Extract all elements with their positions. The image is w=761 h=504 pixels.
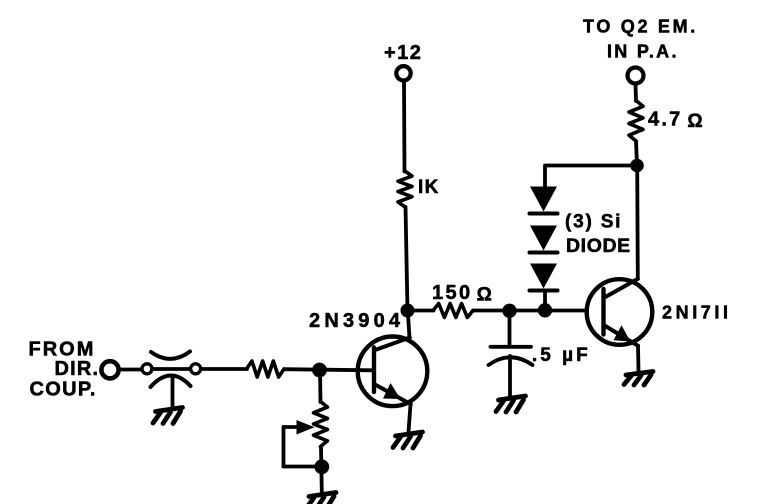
wire terminal to R3 xyxy=(634,84,638,101)
transistor Q1 base bar xyxy=(372,348,376,393)
svg-text:2NI7II: 2NI7II xyxy=(662,303,732,323)
link pickup circle left xyxy=(142,364,152,374)
capacitor C1 top plate xyxy=(491,345,532,349)
node collector of Q1 / 150 ohm xyxy=(401,304,415,318)
svg-text:IK: IK xyxy=(418,177,440,198)
ground Q2 emitter xyxy=(624,372,653,386)
ground Q1 emitter xyxy=(393,432,423,448)
svg-text:COUP.: COUP. xyxy=(30,379,97,401)
diode D3 xyxy=(530,264,558,291)
link pickup circle right xyxy=(191,364,201,374)
link coupling bottom arc (shield) xyxy=(151,375,191,387)
transistor Q2 collector lead xyxy=(605,279,638,298)
wire collector of Q2 xyxy=(635,166,639,280)
wire R4 to base of Q1 xyxy=(284,369,373,370)
ground shield xyxy=(153,408,183,424)
node pot bottom junction xyxy=(314,459,329,474)
svg-text:.5 µF: .5 µF xyxy=(532,345,591,366)
wire link to R4 xyxy=(201,367,247,371)
terminal +12 xyxy=(396,66,410,80)
wire between link circles xyxy=(152,367,190,371)
ground pot bottom xyxy=(307,493,337,504)
link coupling top arc xyxy=(151,352,190,359)
wire diode chain top / horizontal to collector node xyxy=(545,166,637,188)
svg-text:4.7Ω: 4.7Ω xyxy=(648,109,705,133)
diode D2 xyxy=(530,226,558,253)
node diode chain junction xyxy=(538,303,552,317)
resistor R4 input xyxy=(247,361,285,377)
wire Q2 emitter to ground xyxy=(636,346,640,372)
wire pot bottom to lower node xyxy=(319,447,324,493)
wire Q1 collector to node xyxy=(408,311,410,338)
diode D1 xyxy=(530,187,558,214)
terminal input xyxy=(101,361,118,378)
svg-text:IN P.A.: IN P.A. xyxy=(607,42,679,62)
svg-text:150Ω: 150Ω xyxy=(432,282,494,306)
transistor Q2 2N1711 circle xyxy=(587,279,653,345)
wire D3 to diode node xyxy=(543,291,547,311)
node top right junction xyxy=(630,159,644,173)
transistor Q1 collector lead xyxy=(375,338,410,351)
wire R1 to collector node xyxy=(406,207,408,311)
transistor Q2 emitter lead xyxy=(605,326,639,346)
wire capacitor to ground xyxy=(508,356,512,396)
transistor Q2 base bar xyxy=(601,289,605,335)
transistor Q1 2N3904 circle xyxy=(358,337,428,407)
wire shield stem to ground xyxy=(171,377,175,408)
resistor R3 4.7 ohm xyxy=(629,101,643,142)
capacitor C1 curved plate xyxy=(489,357,533,365)
terminal TO Q2 EM xyxy=(628,68,644,84)
node base of Q1 / pot top xyxy=(312,363,327,378)
resistor R1 1K xyxy=(398,171,412,207)
wire capacitor stem upper xyxy=(508,311,512,346)
wire R3 to top node xyxy=(636,141,637,165)
svg-text:DIODE: DIODE xyxy=(566,235,631,257)
svg-text:TO Q2 EM.: TO Q2 EM. xyxy=(583,17,698,37)
potentiometer R5 zigzag xyxy=(314,402,328,447)
transistor Q2 emitter arrow xyxy=(614,325,631,341)
svg-text:(3) Si: (3) Si xyxy=(565,212,622,233)
wire input terminal to link xyxy=(119,368,141,372)
wire wiper loop left vertical xyxy=(282,427,286,467)
wire R2 to base of Q2 xyxy=(473,309,603,313)
potentiometer wiper arrow tail xyxy=(284,425,299,429)
transistor Q1 emitter arrow xyxy=(383,383,401,399)
wire wiper loop bottom horizontal xyxy=(284,465,317,469)
node capacitor junction xyxy=(502,304,516,318)
wire Q1 emitter to ground xyxy=(409,405,411,433)
svg-text:DIR.: DIR. xyxy=(55,358,100,380)
ground capacitor xyxy=(496,396,526,412)
svg-text:+12: +12 xyxy=(384,42,422,64)
wire node to R2 xyxy=(408,309,434,313)
svg-text:2N3904: 2N3904 xyxy=(309,310,404,332)
transistor Q1 emitter lead xyxy=(375,385,411,405)
potentiometer wiper arrowhead xyxy=(297,420,315,435)
wire +12 terminal to R1 xyxy=(402,82,406,172)
wire node to potentiometer xyxy=(318,370,322,402)
resistor R2 150 ohm xyxy=(433,304,473,318)
